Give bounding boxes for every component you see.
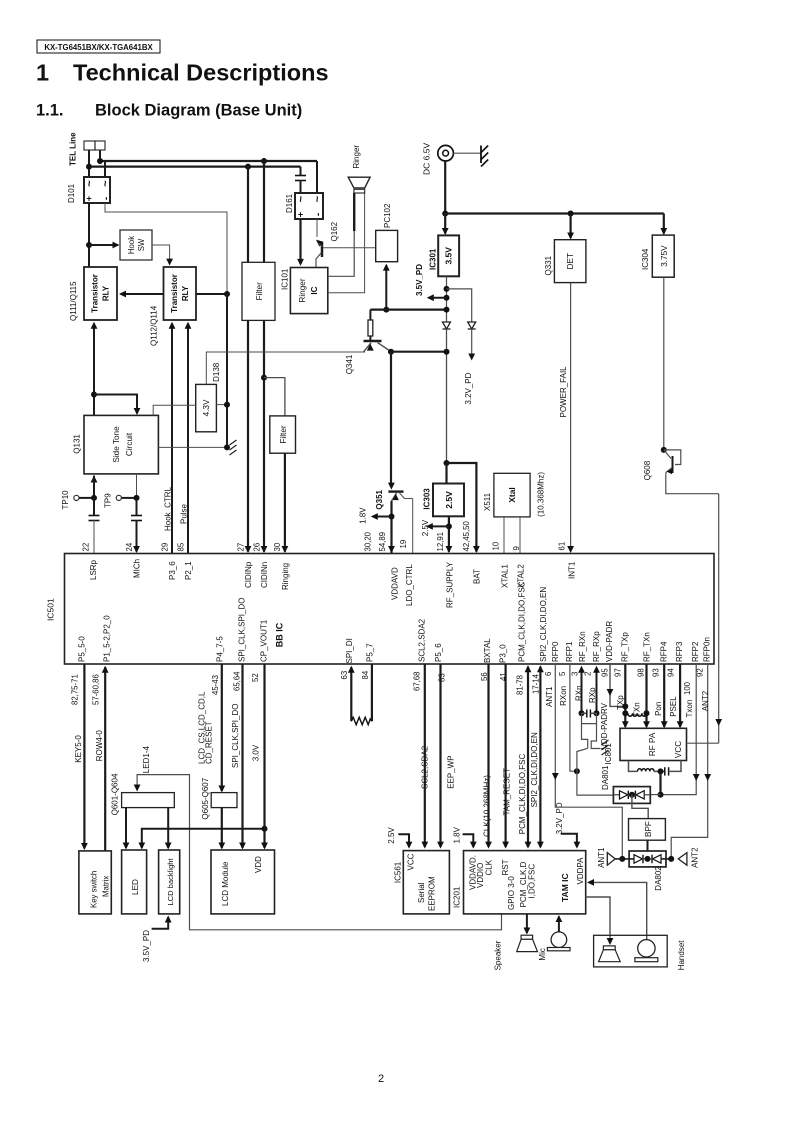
svg-text:POWER_FAIL: POWER_FAIL [559, 366, 568, 418]
wire Q601 to LED [125, 808, 127, 848]
wire Q162 to PC102 [323, 247, 376, 249]
junction DA801 center [629, 792, 635, 798]
junction gnd node [224, 444, 230, 450]
wire sidetone right [136, 474, 138, 498]
svg-text:BXTAL: BXTAL [483, 638, 492, 663]
svg-text:CLK(10.268MHz): CLK(10.268MHz) [483, 775, 492, 837]
opto coupler PC102 [376, 230, 398, 261]
junction 1.8V [389, 514, 395, 520]
svg-text:29: 29 [161, 543, 170, 552]
model label box [37, 40, 160, 53]
svg-text:SPI_CLK,SPI_DO: SPI_CLK,SPI_DO [238, 598, 247, 662]
transistor Q351 [388, 490, 403, 492]
capacitor ringer [300, 167, 302, 176]
svg-text:VCC: VCC [407, 853, 416, 870]
LCD module box [211, 850, 275, 914]
wire Txon [661, 664, 697, 795]
wire mic up [558, 917, 560, 932]
wire 3.5V rail [370, 309, 446, 311]
svg-text:RLY: RLY [181, 285, 190, 301]
wire RF_TXn [645, 664, 647, 727]
wire 4.3V left [153, 405, 196, 415]
junction det [568, 211, 574, 217]
svg-text:85: 85 [177, 542, 186, 551]
ground DC jack [480, 146, 482, 164]
svg-text:12,91: 12,91 [436, 532, 445, 552]
junction TEL upper [97, 158, 103, 164]
svg-text:INT1: INT1 [568, 561, 577, 579]
wire tip ring upper [100, 160, 317, 162]
svg-text:RF_RXp: RF_RXp [592, 631, 601, 662]
lna fet IC801 [582, 713, 597, 723]
junction b3 [444, 307, 450, 313]
svg-text:VCC: VCC [674, 741, 683, 758]
wire to filter2 [264, 378, 285, 416]
wire PA out [629, 761, 638, 772]
antenna switch DA802 [629, 851, 666, 867]
svg-text:-: - [101, 197, 112, 200]
svg-text:XTAL1: XTAL1 [501, 564, 510, 588]
capacitor PA out [664, 767, 666, 775]
wire 2.5V stub [398, 834, 409, 847]
wire 3.0V [263, 664, 265, 848]
wire VDD-PADRV [610, 664, 625, 706]
svg-text:Q112/Q114: Q112/Q114 [150, 305, 159, 346]
svg-text:27: 27 [237, 543, 246, 552]
svg-text:LDO_CTRL: LDO_CTRL [405, 564, 414, 606]
key switch matrix [79, 851, 111, 914]
svg-text:52: 52 [251, 673, 260, 682]
test point TP10 [74, 495, 79, 500]
svg-text:P5_6: P5_6 [434, 643, 443, 662]
svg-text:6: 6 [544, 672, 553, 676]
wire to hook SW [89, 244, 118, 246]
crystal X511 [494, 473, 530, 517]
wire KEY5-0 [83, 664, 85, 849]
svg-text:Q608: Q608 [643, 460, 652, 480]
svg-text:VDDAVD: VDDAVD [391, 567, 400, 600]
svg-text:IC561: IC561 [394, 861, 403, 883]
svg-text:PCM_CLK,DI,DO,FSC: PCM_CLK,DI,DO,FSC [518, 581, 527, 662]
wire RFP1 RXon [570, 664, 577, 771]
svg-text:SCL2,SDA2: SCL2,SDA2 [421, 745, 430, 789]
DC jack [438, 145, 454, 161]
svg-text:24: 24 [125, 542, 134, 551]
svg-text:3.5V_PD: 3.5V_PD [415, 264, 424, 296]
wire dc rail [445, 212, 664, 214]
side tone circuit Q131 [84, 415, 158, 474]
diode D 3.3 b [468, 322, 476, 329]
svg-text:MICh: MICh [133, 559, 142, 578]
svg-text:3.2V_PD: 3.2V_PD [464, 372, 473, 404]
wire PA to DA801 [659, 771, 661, 794]
svg-text:TP9: TP9 [104, 493, 113, 508]
wire D101- down [105, 203, 227, 294]
svg-text:P3_0: P3_0 [499, 644, 508, 663]
wire coil to dot [654, 770, 665, 772]
svg-text:ANT1: ANT1 [545, 686, 554, 707]
svg-text:VDDPA: VDDPA [576, 857, 585, 885]
svg-text:83: 83 [438, 673, 447, 682]
svg-text:81-78: 81-78 [516, 675, 525, 695]
handset speaker symbol [603, 946, 615, 950]
wire diode2 down [471, 329, 473, 358]
wire IC301 out [446, 276, 448, 322]
svg-text:P4_7-5: P4_7-5 [216, 636, 225, 662]
wire ringer out2 [328, 193, 365, 293]
svg-text:4.3V: 4.3V [202, 399, 211, 416]
arrow 1.8V [373, 516, 392, 518]
svg-text:CD_RESET: CD_RESET [205, 721, 214, 764]
test point TP9 [116, 495, 121, 500]
lcd driver Q605-Q607 [211, 793, 237, 808]
junction rail2 [444, 349, 450, 355]
antenna ANT2 [678, 853, 687, 866]
wire MICh upper [136, 498, 138, 516]
wire ANT2 ctl [671, 664, 708, 859]
svg-text:Xtal: Xtal [507, 487, 517, 503]
junction ic303 top [444, 460, 450, 466]
svg-text:SCL2,SDA2: SCL2,SDA2 [418, 618, 427, 662]
svg-text:P2_1: P2_1 [184, 561, 193, 580]
svg-text:Serial: Serial [417, 882, 426, 903]
svg-text:ANT1: ANT1 [597, 847, 606, 868]
svg-text:(10.368Mhz): (10.368Mhz) [537, 472, 546, 517]
svg-text:VDD-PADRV: VDD-PADRV [600, 702, 609, 749]
ringer speaker [348, 177, 370, 188]
svg-text:19: 19 [399, 540, 408, 549]
wire to diode2 [447, 289, 472, 322]
baseband IC501 [65, 554, 715, 665]
svg-text:P5_5-0: P5_5-0 [78, 636, 87, 662]
svg-text:~: ~ [100, 180, 112, 187]
svg-text:EEP_WP: EEP_WP [447, 755, 456, 788]
wire ringer out1 [328, 228, 354, 276]
svg-text:LCD Module: LCD Module [221, 861, 230, 906]
wire Q608 down [718, 494, 720, 744]
svg-text:DC 6.5V: DC 6.5V [422, 143, 432, 175]
junction hook [86, 242, 92, 248]
svg-text:RST: RST [501, 859, 510, 875]
wire into DET [569, 214, 571, 239]
svg-text:93: 93 [652, 668, 661, 677]
led driver Q601-Q604 [122, 793, 175, 808]
junction 4.3V [224, 402, 230, 408]
junction ANT1 node [619, 856, 625, 862]
svg-text:Ringer: Ringer [298, 278, 307, 302]
regulator IC301 [438, 235, 459, 276]
svg-text:42,45,50: 42,45,50 [462, 520, 471, 551]
svg-text:Q162: Q162 [330, 221, 339, 241]
svg-text:IC: IC [310, 286, 319, 294]
wire SPI2 bus [539, 667, 541, 848]
junction DA802 center [645, 856, 651, 862]
svg-text:2: 2 [584, 672, 593, 676]
svg-text:P5_7: P5_7 [366, 643, 375, 662]
svg-text:VDD: VDD [254, 856, 263, 873]
arrow VDDAVD pin [388, 546, 395, 553]
svg-text:17-14: 17-14 [532, 673, 541, 694]
svg-text:PC102: PC102 [383, 203, 392, 228]
svg-text:RF_SUPPLY: RF_SUPPLY [446, 561, 455, 608]
wire CLK [487, 664, 489, 847]
svg-text:10: 10 [492, 541, 501, 550]
wire POWER_FAIL [570, 283, 572, 552]
wire CIDINp [247, 320, 249, 551]
wire tip ring lower [89, 166, 301, 168]
svg-text:67,68: 67,68 [413, 671, 422, 691]
wire PSEL [679, 664, 681, 727]
capacitor RX series [582, 712, 587, 714]
junction TXp1 [622, 703, 628, 709]
svg-text:~: ~ [296, 195, 308, 202]
wire VCC feed [688, 742, 719, 744]
svg-text:RXn: RXn [575, 685, 584, 701]
band pass filter BPF [629, 819, 666, 841]
diode bridge D101 [84, 177, 110, 203]
junction PC102 [383, 307, 389, 313]
svg-text:2.5V: 2.5V [421, 519, 430, 536]
wire Q605 to LCD [221, 808, 223, 848]
svg-text:3.0V: 3.0V [252, 744, 261, 761]
svg-text:Q351: Q351 [375, 489, 384, 509]
wire ROW4-0 [104, 667, 106, 851]
svg-text:RF_TXn: RF_TXn [643, 632, 652, 662]
regulator IC304 [652, 235, 674, 277]
svg-text:Key switch: Key switch [90, 871, 99, 908]
svg-text:DA802: DA802 [654, 866, 663, 891]
svg-text:63: 63 [340, 671, 349, 680]
svg-text:TAM IC: TAM IC [560, 873, 570, 902]
handset box [594, 935, 668, 967]
wire branch to sidetone [94, 395, 137, 414]
wire into IC304 [663, 214, 665, 234]
svg-text:ANT2: ANT2 [691, 847, 700, 868]
wire SCL2 [424, 664, 426, 847]
wire D101+ down [88, 203, 90, 267]
wire LSRp lower [93, 520, 95, 554]
svg-text:92: 92 [696, 668, 705, 677]
svg-text:IC201: IC201 [453, 886, 462, 908]
svg-text:5: 5 [558, 671, 567, 676]
svg-text:Q111/Q115: Q111/Q115 [69, 281, 78, 321]
wire handset spk [586, 897, 610, 944]
svg-text:Pon: Pon [654, 702, 663, 716]
svg-text:Transistor: Transistor [91, 274, 100, 313]
wire IC304 out [663, 277, 665, 450]
svg-text:ANT2: ANT2 [701, 690, 710, 711]
svg-text:LSRp: LSRp [89, 559, 98, 580]
wire LED1-4 path [137, 775, 501, 930]
LCD backlight box [159, 850, 180, 914]
svg-text:Side Tone: Side Tone [112, 426, 121, 463]
wire jack down [444, 162, 446, 214]
wire MICh lower [136, 520, 138, 552]
svg-text:Hook_CTRL: Hook_CTRL [164, 486, 173, 531]
svg-text:IC101: IC101 [281, 268, 290, 290]
svg-text:+: + [298, 210, 303, 220]
svg-text:Ringer: Ringer [352, 145, 361, 169]
svg-text:IC303: IC303 [423, 488, 432, 510]
svg-text:Pulse: Pulse [180, 503, 189, 524]
junction sidetone top [91, 392, 97, 398]
svg-text:Q605-Q607: Q605-Q607 [201, 777, 210, 819]
junction Q608 [661, 447, 667, 453]
junction RXp [594, 710, 600, 716]
svg-text:2: 2 [378, 1073, 384, 1085]
svg-text:Transistor: Transistor [170, 274, 179, 313]
svg-text:98: 98 [637, 668, 646, 677]
svg-text:45-43: 45-43 [211, 675, 220, 695]
transistor relay Q111/Q115 [84, 267, 117, 320]
resistor R pulldown [351, 717, 372, 724]
svg-text:57-60,86: 57-60,86 [92, 674, 101, 705]
ground sidetone [230, 440, 237, 445]
regulator IC303 [433, 484, 464, 517]
svg-text:3: 3 [571, 672, 580, 676]
junction RXon [574, 768, 580, 774]
svg-text:TEL Line: TEL Line [69, 132, 78, 166]
svg-text:95: 95 [601, 668, 610, 677]
ringer IC IC101 [290, 268, 327, 314]
svg-text:IC304: IC304 [641, 248, 650, 270]
junction TP9 [134, 495, 140, 501]
svg-text:P1_5-2,P2_0: P1_5-2,P2_0 [103, 615, 112, 662]
wire Q112 pin29 [171, 324, 173, 554]
wire XTAL1 [503, 517, 505, 554]
wire SPI_DI [350, 667, 352, 721]
wire IC303 out [448, 516, 450, 552]
svg-text:1.1.: 1.1. [36, 102, 64, 120]
junction ANT2 node [668, 856, 674, 862]
wire filter1 in a [247, 167, 249, 263]
wire TAM_RESET [505, 664, 507, 847]
svg-text:65,64: 65,64 [233, 671, 242, 691]
ground IC801 [602, 740, 609, 745]
wire RFP0 ANT1 [555, 664, 622, 859]
svg-text:SPI2_CLK,DI,DO,EN: SPI2_CLK,DI,DO,EN [530, 732, 539, 807]
svg-text:-: - [313, 213, 324, 216]
svg-text:RFP0n: RFP0n [703, 637, 712, 662]
speaker symbol [521, 935, 533, 939]
wire TEL2 down [99, 150, 101, 161]
wire DA801 tap [632, 795, 648, 819]
svg-text:LED: LED [131, 879, 140, 895]
svg-text:PCM_CLK,D: PCM_CLK,D [519, 861, 528, 907]
wire 3.2V_PD stub [561, 834, 577, 847]
svg-text:Q331: Q331 [544, 255, 553, 275]
svg-text:94: 94 [667, 668, 676, 677]
transistor Q341 [364, 340, 382, 342]
junction Q341 coll [388, 349, 394, 355]
svg-text:1.8V: 1.8V [452, 826, 461, 843]
wire filter1 in b [263, 161, 265, 262]
wire D161 right riser [316, 161, 318, 193]
svg-text:D138: D138 [212, 362, 221, 382]
wire jack to gnd [453, 152, 481, 154]
svg-text:I,DO,FSC: I,DO,FSC [528, 864, 537, 899]
wire Q341 to rail [391, 351, 447, 353]
wire Q112 to node [196, 293, 227, 295]
wire Q111 down [93, 324, 95, 416]
wire TEL1 down [88, 150, 90, 177]
svg-text:PSEL: PSEL [669, 696, 678, 717]
diode D 3.3 a [443, 322, 451, 329]
capacitor C MICh [131, 515, 142, 517]
svg-text:ROW4-0: ROW4-0 [95, 730, 104, 762]
svg-text:DA801: DA801 [601, 765, 610, 790]
svg-text:Circuit: Circuit [125, 432, 134, 456]
inductor PA out [638, 769, 654, 772]
svg-text:KEY5-0: KEY5-0 [74, 735, 83, 763]
junction TXn [644, 710, 650, 716]
svg-text:CP_VOUT1: CP_VOUT1 [260, 619, 269, 662]
svg-text:DET: DET [566, 253, 575, 269]
wire 4.3V right [216, 404, 227, 406]
wire RF_TXp [624, 664, 626, 727]
arrow 3.5V_PD [429, 297, 447, 299]
wire SPI to LCD [241, 664, 243, 848]
junction RXn [579, 710, 585, 716]
wire pin19 [412, 499, 414, 554]
antenna ANT1 [615, 858, 622, 860]
arrow into sidetone bottom [91, 476, 98, 483]
wire D161+ to ringer IC [299, 219, 301, 264]
wire Q112 pin85 [187, 324, 189, 554]
svg-text:RXp: RXp [588, 687, 597, 703]
svg-text:3.5V_PD: 3.5V_PD [142, 930, 151, 962]
svg-text:CIDINp: CIDINp [244, 561, 253, 588]
wire x227 down [226, 294, 228, 447]
wire RF_RXp [596, 668, 598, 714]
wire D101 right riser [104, 161, 106, 177]
junction 3.0V [262, 826, 268, 832]
wire PCM bus [527, 667, 529, 848]
wire CIDINn [263, 320, 265, 551]
svg-text:RLY: RLY [102, 285, 111, 301]
svg-text:Technical Descriptions: Technical Descriptions [73, 60, 329, 86]
svg-text:30: 30 [273, 542, 282, 551]
wire LSRp upper [93, 498, 95, 516]
svg-text:SPI2_CLK,DI,DO,EN: SPI2_CLK,DI,DO,EN [539, 587, 548, 662]
svg-text:LCD backlight: LCD backlight [166, 857, 175, 905]
svg-text:GPIO 3-0: GPIO 3-0 [507, 876, 516, 910]
inductor TX [628, 713, 647, 716]
wire to BAT [447, 463, 477, 552]
svg-text:3.75V: 3.75V [660, 245, 669, 267]
wire XTAL2 [519, 517, 521, 554]
svg-text:RFP1: RFP1 [565, 641, 574, 662]
svg-text:RFP0: RFP0 [551, 641, 560, 662]
svg-text:X511: X511 [483, 492, 492, 511]
svg-text:82,75-71: 82,75-71 [71, 674, 80, 705]
svg-text:SPI_CLK,SPI_DO: SPI_CLK,SPI_DO [231, 704, 240, 768]
svg-text:Q601-Q604: Q601-Q604 [111, 773, 120, 815]
svg-text:BAT: BAT [473, 569, 482, 584]
wire into IC303 [445, 463, 447, 484]
svg-text:100: 100 [683, 681, 692, 695]
svg-text:Txon: Txon [685, 700, 694, 718]
junction DA801 out [658, 792, 664, 798]
wire hook to Q112 [152, 245, 170, 264]
svg-text:RXon: RXon [559, 686, 568, 706]
svg-text:Filter: Filter [255, 282, 264, 300]
svg-text:RF PA: RF PA [648, 732, 657, 756]
svg-text:RF_TXp: RF_TXp [621, 632, 630, 662]
svg-text:D101: D101 [67, 183, 76, 203]
svg-text:RF_RXn: RF_RXn [578, 631, 587, 662]
mic symbol [551, 932, 567, 948]
